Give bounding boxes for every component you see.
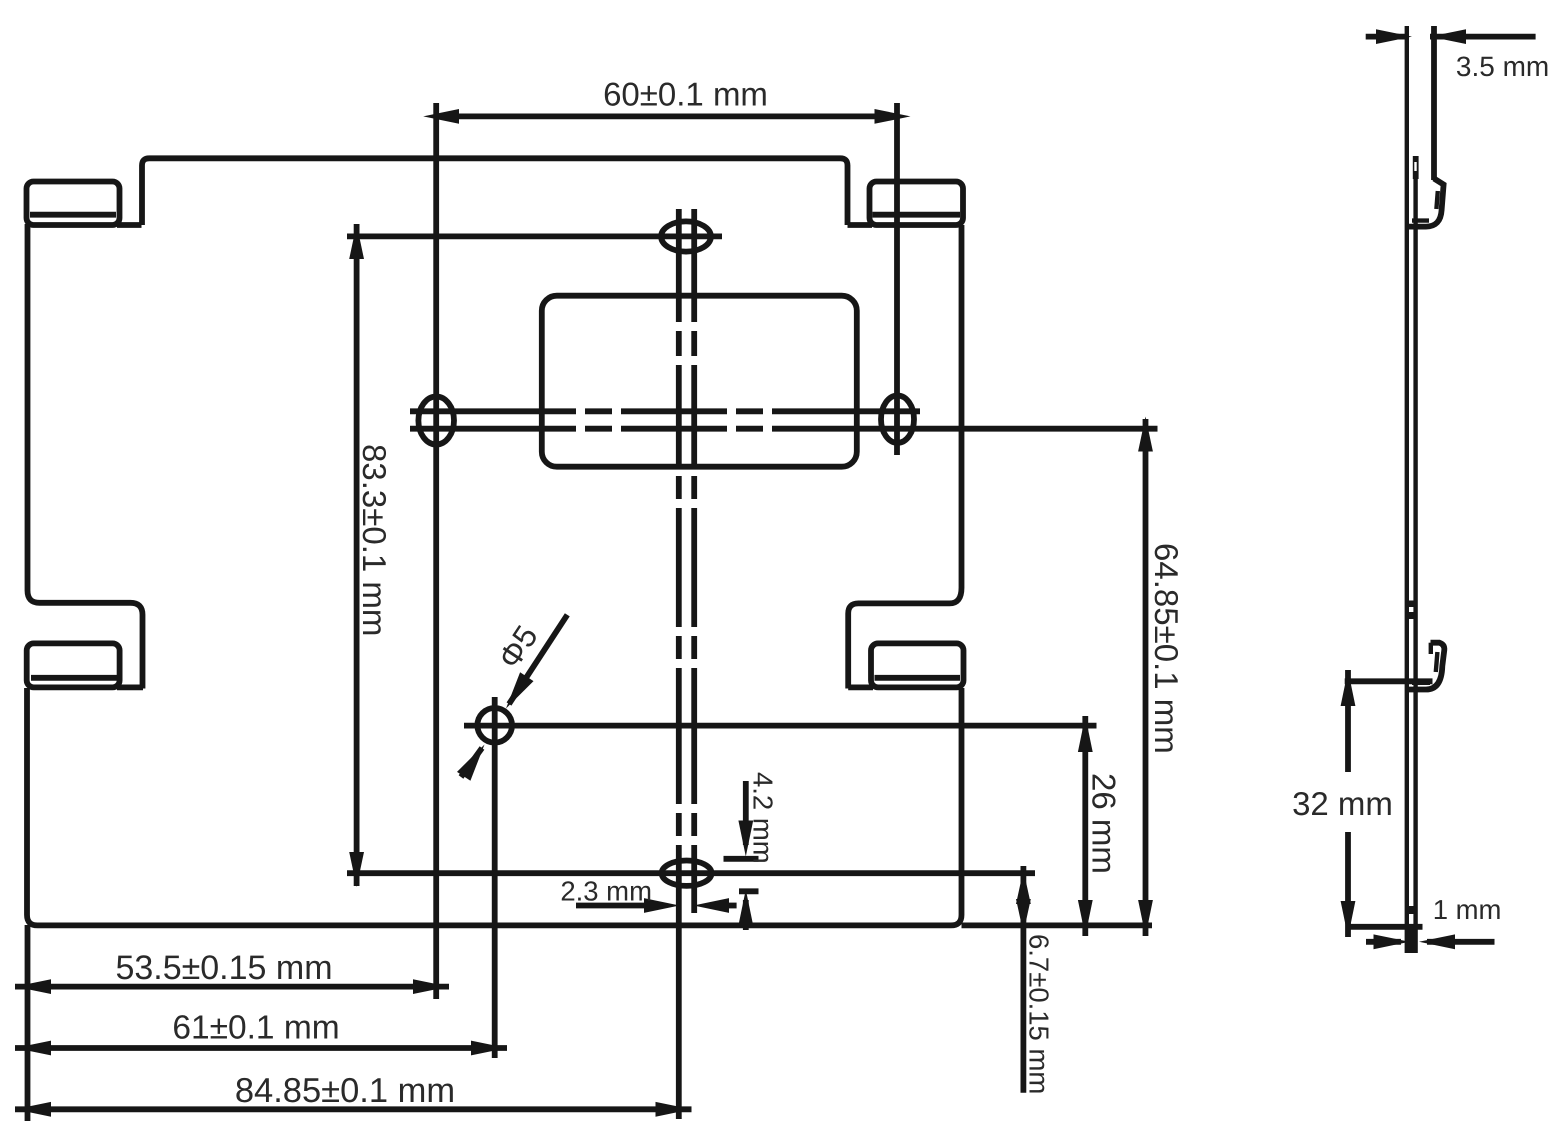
- horizontal slot line upper (dashed): [410, 408, 920, 414]
- vertical slot line right (dashed): [691, 209, 697, 913]
- extension line bottom-left: [25, 925, 31, 1121]
- tab mid-right: [848, 643, 963, 687]
- center line through phi5 hole: [464, 723, 1097, 729]
- tab top-left: [27, 182, 142, 226]
- dimension phi5 leader: [457, 615, 567, 781]
- stub 4.2 bottom: [739, 888, 759, 894]
- dimension 53.5±0.15 mm: [15, 949, 449, 994]
- plate outline top edge: [142, 158, 848, 225]
- hole left: [418, 397, 454, 445]
- svg-text:26 mm: 26 mm: [1086, 773, 1123, 874]
- svg-text:3.5 mm: 3.5 mm: [1456, 51, 1549, 82]
- center line through bottom hole: [347, 870, 1035, 876]
- dimension 6.7±0.15 mm: [1016, 866, 1055, 1094]
- vertical slot line left (dashed): [676, 209, 682, 1119]
- svg-text:4.2 mm: 4.2 mm: [748, 772, 779, 864]
- svg-text:32 mm: 32 mm: [1292, 785, 1393, 822]
- hole bottom: [662, 861, 712, 886]
- plate left edge upper: [28, 224, 143, 689]
- dimension 4.2 mm: [738, 772, 778, 930]
- stub 4.2 top: [724, 856, 759, 862]
- side view slot marks: [1406, 601, 1418, 608]
- svg-text:2.3 mm: 2.3 mm: [560, 876, 652, 907]
- side view top tab bar: [1413, 156, 1419, 179]
- svg-text:83.3±0.1 mm: 83.3±0.1 mm: [356, 444, 393, 636]
- dimension 1 mm: [1366, 894, 1501, 949]
- svg-text:6.7±0.15 mm: 6.7±0.15 mm: [1024, 934, 1055, 1094]
- rectangular cutout: [542, 296, 857, 467]
- hole right: [881, 396, 914, 443]
- extension line through left hole: [433, 103, 439, 999]
- tab top-right: [848, 182, 964, 226]
- dimension 2.3 mm: [560, 876, 736, 913]
- plate lower outline: [27, 688, 962, 925]
- tab mid-left: [27, 643, 143, 687]
- svg-text:84.85±0.1 mm: 84.85±0.1 mm: [235, 1072, 455, 1110]
- svg-text:60±0.1 mm: 60±0.1 mm: [603, 76, 768, 113]
- svg-text:64.85±0.1 mm: 64.85±0.1 mm: [1148, 543, 1185, 754]
- svg-text:1 mm: 1 mm: [1433, 894, 1502, 925]
- svg-text:53.5±0.15 mm: 53.5±0.15 mm: [115, 949, 332, 987]
- side view middle hook: [1409, 643, 1445, 690]
- horizontal slot line lower (dashed, extends to 64.85 dim): [410, 426, 1158, 432]
- plate right edge upper: [848, 225, 961, 689]
- dimension 83.3±0.1 mm: [349, 224, 393, 887]
- dimension 3.5 mm: [1366, 29, 1550, 82]
- dimension 60±0.1 mm: [423, 76, 910, 124]
- hole top: [661, 221, 711, 251]
- dimension 32 mm: [1292, 670, 1432, 937]
- dimension 61±0.1 mm: [15, 1009, 507, 1055]
- dimension 84.85±0.1 mm: [15, 1072, 692, 1117]
- extension of plate bottom edge to the right: [962, 923, 1153, 929]
- side view top hook: [1409, 26, 1444, 227]
- side view plate left face: [1405, 26, 1409, 953]
- hole phi5: [477, 708, 512, 743]
- side view plate right face: [1413, 156, 1417, 953]
- extension line through phi5 hole: [492, 697, 498, 1058]
- center line through top hole: [347, 233, 722, 239]
- dimension 64.85±0.1 mm: [1138, 417, 1185, 937]
- svg-text:61±0.1 mm: 61±0.1 mm: [172, 1009, 339, 1046]
- dimension 26 mm: [1078, 716, 1123, 936]
- extension line through right hole: [894, 103, 900, 455]
